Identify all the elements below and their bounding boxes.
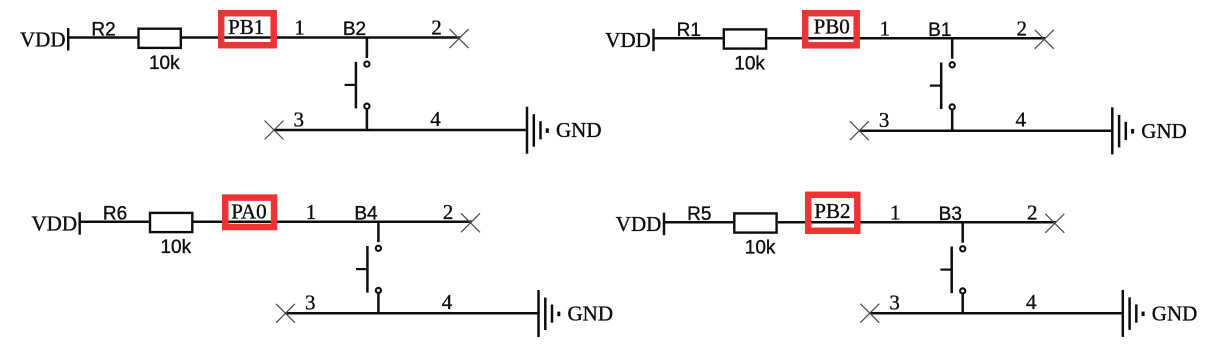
resistor R2 10k [91, 20, 180, 75]
pin 4 label of switch B4 [442, 290, 453, 314]
svg-text:10k: 10k [734, 54, 765, 75]
no-connect flag on pin 3 of B3 [860, 304, 879, 323]
pin 1 label of switch B2 [294, 16, 305, 40]
svg-text:B2: B2 [343, 19, 366, 40]
svg-text:1: 1 [294, 16, 305, 40]
ground GND (circuit 1) [527, 107, 602, 154]
no-connect flag on pin 3 of B4 [276, 304, 295, 323]
svg-text:3: 3 [889, 291, 900, 315]
svg-text:1: 1 [890, 200, 901, 224]
svg-text:PB2: PB2 [814, 199, 850, 223]
pin 2 label of switch B1 [1017, 16, 1028, 40]
wire resistor R6 to no-connect (net PA0) [194, 220, 472, 223]
pin 2 label of switch B3 [1027, 200, 1038, 224]
no-connect flag on pin 2 of B1 [1035, 30, 1054, 49]
ground GND (circuit 4) [1123, 290, 1198, 337]
bottom wire pin 3 to GND [870, 312, 1122, 315]
power symbol VDD (circuit 2) [605, 28, 653, 52]
svg-text:2: 2 [1017, 16, 1028, 40]
svg-text:1: 1 [306, 200, 317, 224]
power symbol VDD (circuit 3) [32, 212, 80, 236]
push button switch B1 [928, 20, 955, 132]
svg-text:PA0: PA0 [231, 199, 266, 223]
wire VDD to resistor R6 [80, 220, 149, 223]
svg-text:B1: B1 [928, 20, 951, 41]
svg-text:R2: R2 [91, 20, 115, 41]
svg-text:VDD: VDD [616, 212, 662, 236]
bottom wire pin 3 to GND [859, 129, 1111, 132]
highlight box around net label PB1 [221, 13, 274, 45]
highlight box around net label PB2 [808, 195, 857, 231]
pin 1 label of switch B4 [306, 200, 317, 224]
pin 2 label of switch B2 [431, 16, 442, 40]
svg-text:GND: GND [568, 302, 614, 326]
wire VDD to resistor R1 [654, 37, 723, 40]
power symbol VDD (circuit 1) [20, 27, 68, 51]
svg-text:GND: GND [556, 118, 602, 142]
pin 2 label of switch B4 [443, 200, 454, 224]
svg-text:VDD: VDD [20, 27, 66, 51]
svg-text:2: 2 [431, 16, 442, 40]
svg-text:10k: 10k [149, 53, 180, 74]
pin 3 label of switch B1 [879, 108, 890, 132]
pin 4 label of switch B2 [430, 107, 441, 131]
no-connect flag on pin 2 of B3 [1045, 214, 1064, 233]
pin 1 label of switch B1 [880, 16, 891, 40]
svg-text:3: 3 [294, 107, 305, 131]
wire resistor R5 to no-connect (net PB2) [778, 221, 1056, 224]
net label PB2 [814, 199, 850, 223]
svg-text:10k: 10k [745, 238, 776, 259]
wire VDD to resistor R2 [68, 36, 137, 39]
svg-text:3: 3 [305, 291, 316, 315]
no-connect flag on pin 3 of B1 [850, 121, 869, 140]
ground GND (circuit 2) [1112, 107, 1187, 154]
ground GND (circuit 3) [539, 290, 614, 337]
svg-text:2: 2 [1027, 200, 1038, 224]
svg-text:4: 4 [430, 107, 441, 131]
svg-text:VDD: VDD [605, 28, 651, 52]
net label PA0 [231, 199, 266, 223]
pin 4 label of switch B3 [1026, 290, 1037, 314]
resistor R1 10k [677, 20, 766, 74]
svg-text:4: 4 [1026, 290, 1037, 314]
net label PB0 [814, 15, 850, 39]
svg-text:B4: B4 [354, 203, 378, 224]
svg-text:R1: R1 [677, 20, 701, 41]
svg-text:4: 4 [442, 290, 453, 314]
svg-text:GND: GND [1152, 301, 1198, 325]
svg-text:4: 4 [1016, 108, 1027, 132]
pin 3 label of switch B4 [305, 291, 316, 315]
svg-text:PB0: PB0 [814, 15, 850, 39]
svg-text:GND: GND [1141, 119, 1187, 143]
pin 1 label of switch B3 [890, 200, 901, 224]
push button switch B3 [939, 204, 966, 314]
resistor R5 10k [687, 204, 776, 259]
no-connect flag on pin 3 of B2 [265, 121, 284, 140]
svg-text:3: 3 [879, 108, 890, 132]
wire VDD to resistor R5 [664, 221, 733, 224]
svg-text:PB1: PB1 [228, 15, 264, 39]
resistor R6 10k [103, 204, 192, 259]
svg-text:2: 2 [443, 200, 454, 224]
svg-text:1: 1 [880, 16, 891, 40]
svg-text:R6: R6 [103, 204, 127, 225]
bottom wire pin 3 to GND [274, 129, 526, 132]
pin 3 label of switch B3 [889, 291, 900, 315]
push button switch B4 [354, 203, 381, 314]
push button switch B2 [343, 19, 370, 131]
power symbol VDD (circuit 4) [616, 212, 664, 236]
wire resistor R1 to no-connect (net PB0) [767, 37, 1045, 40]
net label PB1 [228, 15, 264, 39]
highlight box around net label PB0 [805, 13, 857, 45]
svg-text:10k: 10k [160, 237, 191, 258]
no-connect flag on pin 2 of B2 [450, 29, 469, 48]
svg-text:R5: R5 [687, 204, 711, 225]
pin 4 label of switch B1 [1016, 108, 1027, 132]
no-connect flag on pin 2 of B4 [461, 213, 480, 232]
svg-text:VDD: VDD [32, 212, 78, 236]
svg-text:B3: B3 [939, 204, 962, 225]
highlight box around net label PA0 [225, 198, 274, 227]
wire resistor R2 to no-connect (net PB1) [182, 36, 460, 39]
bottom wire pin 3 to GND [286, 312, 538, 315]
pin 3 label of switch B2 [294, 107, 305, 131]
